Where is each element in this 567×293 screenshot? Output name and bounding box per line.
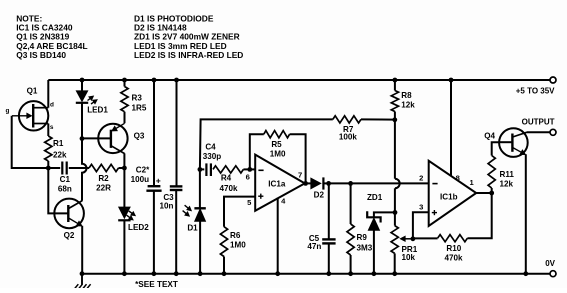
svg-text:22R: 22R	[96, 183, 111, 192]
terminal +5 TO 35V	[550, 77, 556, 83]
svg-text:R2: R2	[98, 174, 109, 183]
resistor R10 470k	[413, 237, 438, 239]
svg-text:IC1b: IC1b	[440, 192, 458, 201]
node ZD1/PR1 junction	[393, 210, 398, 215]
svg-text:1M0: 1M0	[230, 240, 246, 249]
terminal 0V	[550, 271, 556, 277]
svg-text:IC1a: IC1a	[268, 179, 286, 188]
node R7/R8 junction	[392, 117, 397, 122]
node PR1 wiper/R10/pin3 junction	[411, 236, 416, 241]
svg-text:R6: R6	[230, 231, 241, 240]
node IC1a output junction	[303, 181, 308, 186]
resistor R8 12k	[393, 78, 398, 83]
svg-text:Q2: Q2	[64, 231, 75, 240]
capacitor C5 47n	[328, 183, 330, 239]
wire IC1a pin5 to R6	[224, 197, 255, 227]
resistor R1 22k	[45, 136, 52, 161]
svg-text:OUTPUT: OUTPUT	[522, 117, 555, 126]
node R2/Q3 collector junction	[122, 166, 127, 171]
svg-text:+: +	[156, 176, 161, 186]
capacitor C3 10n	[174, 78, 179, 83]
resistor R4 470k	[213, 166, 243, 173]
svg-text:D1: D1	[187, 224, 198, 233]
svg-text:R5: R5	[271, 140, 282, 149]
svg-text:g: g	[6, 108, 10, 115]
wire Q1 drain to top rail	[47, 80, 49, 108]
resistor R7 100k	[200, 119, 333, 169]
svg-text:100k: 100k	[339, 132, 358, 141]
node R4/R5/pin6 junction	[247, 167, 252, 172]
LED LED2 infra-red	[119, 207, 131, 218]
wire Q3 collector to LED2	[123, 153, 125, 207]
svg-text:+5 TO 35V: +5 TO 35V	[516, 87, 555, 96]
preset PR1 10k	[391, 226, 398, 254]
terminal OUTPUT	[550, 129, 556, 135]
capacitor C2 100u electrolytic	[152, 78, 157, 83]
svg-text:s: s	[50, 124, 54, 131]
svg-text:Q4: Q4	[484, 132, 495, 141]
svg-text:10k: 10k	[402, 253, 416, 262]
node R1/C1/Q2 base junction	[46, 166, 51, 171]
svg-text:R9: R9	[357, 233, 368, 242]
resistor R6 1M0	[220, 227, 227, 257]
wire Q1 gate column	[12, 116, 49, 168]
LED LED1 red	[81, 80, 83, 91]
transistor Q4 BC184L output	[499, 128, 528, 157]
wire Q4 collector to output terminal	[527, 131, 550, 133]
svg-text:Q1: Q1	[27, 87, 38, 96]
svg-text:100u: 100u	[131, 175, 150, 184]
svg-text:*SEE TEXT: *SEE TEXT	[135, 280, 178, 288]
svg-text:0V: 0V	[545, 259, 555, 268]
wire IC1b pin8 to +V rail	[449, 78, 454, 83]
wire D2 cathode to IC1b pin2	[329, 182, 429, 184]
photodiode D1	[199, 169, 201, 208]
svg-text:R8: R8	[401, 91, 412, 100]
node D1/C4/R7 junction	[198, 167, 203, 172]
svg-text:Q3 IS BD140: Q3 IS BD140	[16, 50, 66, 60]
svg-text:LED2: LED2	[128, 223, 149, 232]
wire 0V bottom rail	[82, 273, 550, 275]
wire Q2 collector up (hop over C1-R2 wire)	[82, 139, 87, 201]
resistor R3 1R5	[122, 78, 127, 83]
capacitor C1 68n	[48, 167, 60, 169]
transistor Q1 2N3819 JFET	[19, 101, 48, 130]
svg-text:3: 3	[419, 203, 423, 212]
resistor R2 22R	[89, 164, 119, 171]
svg-text:2: 2	[419, 173, 423, 182]
svg-text:R3: R3	[132, 94, 143, 103]
svg-text:C2*: C2*	[136, 165, 150, 174]
resistor R11 12k	[488, 156, 495, 189]
zener diode ZD1 2V7	[374, 212, 395, 217]
svg-text:22k: 22k	[53, 151, 67, 160]
wire Q2 emitter to 0V rail	[81, 226, 83, 274]
diode D2 1N4148	[305, 182, 311, 184]
svg-text:12k: 12k	[401, 100, 415, 109]
resistor R5 1M0 feedback	[250, 134, 264, 169]
op-amp IC1a	[255, 155, 305, 211]
node LED1/Q3 base junction	[80, 136, 85, 141]
svg-text:R10: R10	[446, 244, 461, 253]
svg-text:LED2 IS IS INFRA-RED LED: LED2 IS IS INFRA-RED LED	[134, 50, 243, 60]
svg-text:d: d	[50, 101, 54, 108]
svg-text:12k: 12k	[500, 179, 514, 188]
svg-text:1M0: 1M0	[270, 149, 286, 158]
svg-text:68n: 68n	[58, 185, 72, 194]
wire IC1a pin4 to 0V	[277, 198, 279, 274]
node IC1b output junction	[476, 192, 492, 194]
resistor R9 3M3	[348, 181, 353, 186]
capacitor C4 330p	[200, 168, 204, 170]
ground symbol	[81, 274, 83, 285]
svg-text:47n: 47n	[307, 242, 321, 251]
op-amp IC1b	[429, 161, 477, 226]
svg-text:6: 6	[246, 172, 250, 181]
svg-text:7: 7	[298, 170, 302, 179]
svg-text:1R5: 1R5	[132, 104, 147, 113]
svg-text:Q3: Q3	[134, 131, 145, 140]
svg-text:ZD1: ZD1	[367, 193, 383, 202]
node D2 cathode/C5 junction	[326, 181, 331, 186]
wire Q4 emitter to 0V rail	[525, 154, 527, 273]
svg-text:8: 8	[456, 174, 460, 183]
wire IC1b pin3	[413, 212, 429, 239]
wire +V top supply rail	[48, 79, 550, 81]
svg-text:330p: 330p	[203, 152, 222, 161]
transistor Q3 BD140 PNP	[98, 124, 127, 153]
svg-text:470k: 470k	[444, 253, 463, 262]
svg-text:470k: 470k	[219, 184, 238, 193]
wire R7/R8 junction down to PR1 (hop over signal wire)	[394, 120, 396, 179]
svg-text:10n: 10n	[160, 202, 174, 211]
svg-text:C1: C1	[60, 175, 71, 184]
svg-text:R11: R11	[500, 170, 515, 179]
svg-text:3M3: 3M3	[357, 243, 373, 252]
svg-text:C4: C4	[205, 143, 216, 152]
svg-text:R4: R4	[221, 173, 232, 182]
svg-text:R1: R1	[53, 139, 64, 148]
svg-text:LED1: LED1	[87, 106, 108, 115]
transistor Q2 BC184L	[48, 168, 68, 213]
svg-text:D2: D2	[314, 191, 325, 200]
